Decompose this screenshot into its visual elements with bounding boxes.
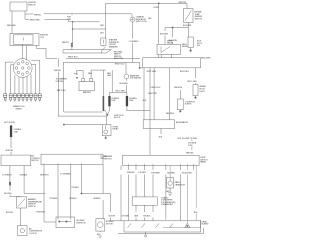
label YEL/T GRN right	[187, 81, 197, 83]
label RED/GRN	[36, 212, 45, 214]
wire box2 drop 2	[57, 165, 59, 220]
label BLK/GRN	[160, 33, 169, 35]
wire charge indicator down	[132, 22, 134, 62]
label BLK left edge	[148, 18, 152, 20]
wire box2 drop 4	[81, 165, 83, 194]
label ambient 4 lines	[28, 198, 42, 208]
battery pos stub dot	[76, 77, 78, 79]
svg-text:ORG/Y BLU: ORG/Y BLU	[150, 87, 160, 89]
alternator box	[143, 120, 174, 129]
svg-text:SOL: SOL	[197, 45, 202, 47]
label NEG	[88, 73, 93, 75]
motor ground	[99, 230, 101, 233]
battery terminal left	[82, 78, 85, 81]
svg-text:RELAY: RELAY	[167, 42, 174, 45]
label RED/T BLU on line	[115, 64, 125, 66]
label spark plugs	[13, 105, 25, 110]
label BLK small	[143, 100, 147, 102]
svg-text:LT GRN/RD: LT GRN/RD	[129, 41, 139, 43]
label ammeter	[130, 74, 141, 79]
wire box3 drop b2	[135, 165, 137, 197]
light switch box3	[123, 155, 200, 165]
label fusible link 2	[129, 98, 137, 102]
label BLK/YEL	[6, 212, 14, 214]
plug wire 1 elbow left	[5, 62, 13, 94]
svg-text:LINK: LINK	[67, 19, 72, 21]
wire y116.1 line	[58, 115, 107, 117]
label clutch 3 lines	[29, 227, 43, 235]
label LPS/BLU	[72, 187, 80, 189]
svg-text:WHT/BLK: WHT/BLK	[166, 113, 175, 115]
wire box1 drop right	[24, 166, 45, 194]
wire reg drop 2	[153, 68, 155, 120]
label YEL/T GRN	[115, 90, 125, 92]
regulator box	[143, 58, 201, 68]
svg-text:LIGHT: LIGHT	[199, 91, 205, 93]
svg-text:YEL/T GRN: YEL/T GRN	[187, 81, 197, 83]
label lighter 2 lines	[175, 181, 186, 186]
svg-text:BLU/GRN: BLU/GRN	[183, 25, 192, 27]
wire x110.5 down	[110, 194, 112, 221]
blower motor M1	[96, 219, 105, 231]
wire coil tach branch	[36, 46, 46, 59]
svg-text:RED/TEL: RED/TEL	[186, 153, 195, 155]
wire reg drop 1	[143, 68, 145, 120]
svg-text:YEL/T GRN: YEL/T GRN	[115, 90, 125, 92]
label WHT/BL vertical	[54, 70, 62, 72]
label ORN/YEL	[5, 150, 14, 152]
label box3 right 3 lines	[200, 157, 208, 164]
svg-text:RED: RED	[100, 158, 105, 160]
wire coil HV to distributor	[21, 44, 23, 58]
wire reg drop 3	[169, 68, 171, 120]
svg-text:SWITCH: SWITCH	[28, 5, 36, 7]
svg-text:(INST CLUS): (INST CLUS)	[136, 21, 147, 23]
label BRN/TOR	[40, 174, 49, 176]
wire to underhood light	[195, 68, 197, 85]
wire drop x139.6	[139, 62, 141, 68]
svg-text:PPL/BLU: PPL/BLU	[72, 187, 80, 189]
wire WHT/BL feed	[25, 14, 132, 17]
svg-text:GRN/BLI: GRN/BLI	[93, 198, 101, 200]
wire temp switch down	[187, 22, 189, 27]
svg-text:PPL/RED: PPL/RED	[50, 198, 58, 200]
wire box3 drop a	[120, 165, 122, 221]
label ground 2 lines	[201, 221, 208, 225]
svg-text:BLK/RED: BLK/RED	[167, 173, 175, 175]
plug wire 8 elbow	[32, 64, 36, 94]
wire RED/T BRN drop at x72.6	[72, 22, 74, 43]
svg-text:BATTERY: BATTERY	[83, 91, 92, 94]
wire WHT/BL long vertical	[57, 58, 59, 116]
label HORN	[154, 7, 160, 9]
wire lighter drop	[169, 165, 171, 177]
svg-text:YEL/BLK: YEL/BLK	[143, 216, 151, 218]
wire tach line y58.3	[46, 57, 140, 59]
lamp box A	[193, 85, 198, 96]
svg-text:OR GRN: OR GRN	[122, 216, 130, 218]
label BLK/GRN below ammeter	[120, 83, 129, 85]
label RED/T BLU small	[68, 57, 78, 59]
blower resistor block	[56, 217, 75, 228]
label box2 right 2 lines	[104, 156, 113, 160]
label BLK right	[194, 212, 198, 214]
label box B 2 lines	[185, 101, 196, 105]
ignition switch SW1	[10, 2, 27, 11]
rail switch diagonal	[106, 50, 111, 53]
plug wire 9 elbow	[31, 60, 40, 94]
starter interrupt connector box	[101, 38, 106, 45]
label relay 3 lines	[113, 126, 120, 130]
svg-text:BLK: BLK	[100, 32, 104, 34]
wire coil second drop	[25, 46, 27, 61]
wire RED/T BRN feed	[25, 19, 100, 22]
wire y27.5 bus	[165, 27, 188, 29]
label RED/TR connector	[62, 42, 69, 44]
switch slashes	[128, 223, 174, 227]
wire top seg left	[109, 220, 124, 222]
label box1 3 lines	[31, 155, 41, 163]
label ignition coil	[40, 35, 49, 40]
wire ammeter up	[125, 62, 127, 74]
wire horn feed line y3.4	[106, 2, 187, 4]
svg-text:BLK/T BLU: BLK/T BLU	[180, 71, 190, 73]
label GRN/YEL	[127, 172, 136, 174]
svg-text:LT GRN/RED: LT GRN/RED	[60, 173, 71, 175]
label LT GRN/RED	[129, 41, 139, 43]
label RED/T BRN	[30, 20, 40, 22]
label DK GRN	[139, 172, 147, 174]
horn relay lower box	[102, 125, 111, 136]
svg-text:BLU/YEL: BLU/YEL	[4, 193, 12, 195]
label ORN/BLK	[19, 175, 28, 177]
wire y67.9 stub	[140, 67, 143, 69]
label solenoid 3 lines	[197, 41, 203, 48]
fuse label 2 lines	[188, 142, 197, 147]
plug wire 5	[22, 77, 24, 93]
wire ambient down	[20, 208, 22, 226]
wire fuse drop	[191, 140, 193, 156]
svg-text:LINK: LINK	[14, 131, 19, 133]
temp sender switch S2	[184, 8, 194, 22]
svg-text:LPS/BLS: LPS/BLS	[69, 198, 77, 200]
svg-text:SCREW: SCREW	[201, 224, 208, 226]
wire box3 drop e	[179, 165, 181, 221]
svg-text:SWITCH: SWITCH	[28, 206, 36, 208]
wire box3 drop b	[128, 165, 130, 221]
svg-text:WHT: WHT	[100, 25, 105, 27]
label box A 3 lines	[199, 86, 206, 93]
wire corner to temp switch	[186, 3, 188, 8]
svg-text:COIL: COIL	[40, 37, 45, 39]
fusible link bus	[109, 92, 127, 94]
svg-text:LINK: LINK	[129, 100, 134, 102]
svg-text:BLK: BLK	[143, 100, 147, 102]
wire box2 drop 3	[70, 165, 72, 220]
svg-text:(OR GAUGE): (OR GAUGE)	[130, 77, 141, 80]
horn relay K1	[157, 44, 180, 54]
legend text 4 lines	[161, 196, 176, 206]
link stubs	[109, 93, 127, 97]
svg-text:NEG: NEG	[88, 73, 93, 75]
label BLK/T BLU	[180, 71, 190, 73]
label GRN/BLI	[93, 198, 101, 200]
svg-text:BRN/TOR: BRN/TOR	[40, 174, 49, 176]
label fusible link 1	[112, 98, 120, 102]
wire ign switch left drop to coil	[11, 11, 13, 34]
svg-text:4 TEL: 4 TEL	[188, 145, 194, 147]
inner bus line	[163, 227, 201, 229]
label HOT IN LIGHT OR RUN	[178, 138, 198, 140]
label WHT/BLK	[174, 87, 183, 89]
wire ign switch right drop	[24, 11, 26, 19]
fan switch bottom box	[124, 221, 201, 232]
wire box2 drop 1	[43, 165, 45, 209]
svg-text:GRN/YEL: GRN/YEL	[127, 172, 136, 174]
wire to box B	[179, 90, 181, 99]
wire link1 down to V	[107, 106, 109, 114]
capacitor component	[167, 178, 174, 189]
label connector 5 lines	[109, 39, 120, 49]
label DK BL/GRN	[182, 173, 192, 175]
svg-text:HOT IN RUN: HOT IN RUN	[4, 122, 15, 124]
box3 terminal ticks	[129, 164, 194, 166]
svg-text:ORN/YEL: ORN/YEL	[5, 150, 14, 152]
wire box3 drop d	[165, 165, 167, 219]
wire ammeter down	[125, 79, 127, 93]
svg-text:POS: POS	[74, 73, 79, 75]
V point dot	[107, 114, 109, 116]
wire x103.3 battery down	[102, 70, 104, 96]
label horn relay	[167, 40, 174, 44]
svg-text:SPL/T GRN: SPL/T GRN	[147, 71, 157, 73]
label BATT BLK	[57, 89, 67, 92]
label charge indicator	[136, 16, 147, 24]
label right of relay	[182, 44, 189, 48]
svg-text:BLK: BLK	[166, 191, 170, 193]
wire connector to rail	[71, 47, 73, 50]
ignition coil C1 outer	[10, 34, 39, 46]
wire y62.3 line	[63, 61, 139, 63]
wire cable to V	[103, 111, 107, 115]
wire x112.2 drop to link bus	[111, 70, 113, 92]
heater box upper	[132, 197, 157, 205]
label BLU/GRN	[183, 25, 192, 27]
label BLK/RED	[167, 173, 175, 175]
label ORG/Y BLU	[150, 87, 160, 89]
starter interrupt rail top	[63, 49, 111, 51]
wire box1 drop left	[9, 166, 11, 182]
wire drop x63.3	[62, 62, 64, 112]
labels under heater box	[109, 216, 151, 218]
svg-text:BLK: BLK	[194, 212, 198, 214]
label RED LBN	[7, 25, 16, 27]
junction dot horn line	[158, 3, 159, 4]
wire battery neg	[91, 70, 106, 78]
svg-text:BLK: BLK	[97, 234, 101, 236]
bottom bus line	[118, 220, 204, 233]
wire box3 drop b3	[144, 165, 146, 197]
svg-text:4 HEATER A/C: 4 HEATER A/C	[161, 203, 174, 206]
wire link3 down	[10, 138, 12, 156]
wire box2 right edge drop	[102, 165, 104, 219]
ammeter gauge	[124, 74, 129, 79]
wire x172.6 down	[172, 28, 174, 45]
label LT GRN/TR	[2, 175, 12, 177]
svg-text:WHT/BLK: WHT/BLK	[174, 87, 183, 89]
svg-text:SWITCH: SWITCH	[31, 160, 39, 162]
label POS	[74, 73, 79, 75]
svg-text:BLK/TR: BLK/TR	[109, 216, 116, 218]
label WHT end	[100, 25, 105, 27]
label neutral safety 4 lines	[114, 50, 123, 60]
label TO STARTER SYSTEM	[56, 77, 68, 82]
junction dot	[139, 67, 140, 68]
relay bottom dot	[105, 136, 107, 138]
svg-text:ELECTRIC: ELECTRIC	[148, 93, 158, 95]
svg-text:LINK: LINK	[112, 100, 117, 102]
svg-text:GRN: GRN	[107, 75, 112, 77]
A/C clutch box	[18, 226, 27, 236]
wire x105.7 battery to horn line	[105, 3, 107, 38]
A/C control box1	[1, 155, 31, 166]
label ignition switch	[28, 2, 37, 7]
svg-text:B FD/RED: B FD/RED	[151, 173, 160, 175]
wire jog right	[82, 193, 111, 195]
label fusible link tick	[71, 14, 73, 15]
wire box3 drop to ground triangle	[186, 165, 188, 223]
svg-text:PANEL: PANEL	[200, 161, 207, 164]
plug wire 3	[14, 75, 16, 94]
svg-text:BATT/ BLK: BATT/ BLK	[57, 89, 67, 92]
wire relay drops	[159, 55, 172, 58]
ground triangle	[185, 223, 190, 227]
svg-text:BLK/YEL: BLK/YEL	[6, 212, 14, 214]
wire lower feed line	[64, 124, 102, 126]
box2 blower switch	[41, 154, 103, 165]
svg-text:RED/TR: RED/TR	[62, 42, 69, 44]
ignition coil inner	[13, 35, 33, 45]
svg-text:WHT/BL: WHT/BL	[54, 70, 62, 72]
wire battery pos	[77, 70, 83, 78]
svg-text:RED/TRL: RED/TRL	[179, 2, 188, 4]
label motor 2 lines	[106, 221, 115, 225]
svg-text:LT GRN/TR: LT GRN/TR	[2, 175, 12, 177]
svg-text:CLUTCH: CLUTCH	[29, 233, 37, 235]
svg-text:RELAY: RELAY	[182, 45, 189, 48]
svg-text:DK BL/GRN: DK BL/GRN	[182, 173, 192, 175]
label ALTERNATOR	[176, 121, 189, 124]
wire heater drops	[135, 205, 137, 221]
wire V to relay	[106, 115, 108, 125]
lamp box B	[178, 99, 184, 110]
label TO BLOWER	[60, 173, 71, 175]
box2 terminal ticks	[44, 163, 82, 165]
connector in-line	[71, 43, 73, 45]
solenoid ground dot	[190, 48, 192, 50]
svg-text:LIGHTS: LIGHTS	[185, 104, 192, 106]
label ELECTRIC	[148, 93, 158, 95]
plug wire 4	[18, 77, 20, 94]
label RED/TEL	[186, 153, 195, 155]
wire link2 down and right	[127, 106, 150, 110]
fusible link L4	[9, 182, 11, 186]
interrupt switch diagonal	[101, 45, 105, 53]
ambient switch S3	[17, 197, 27, 208]
svg-text:MOTOR: MOTOR	[106, 223, 113, 225]
svg-text:WIRES: WIRES	[16, 109, 23, 111]
spark plugs row	[3, 94, 42, 102]
svg-text:SYSTEM: SYSTEM	[56, 81, 64, 83]
svg-text:RED/T BRN: RED/T BRN	[30, 20, 40, 22]
svg-text:BREAKER: BREAKER	[109, 45, 118, 48]
distributor center	[22, 67, 24, 69]
svg-text:BLK: BLK	[159, 136, 163, 138]
svg-text:RED/T BLU: RED/T BLU	[115, 64, 125, 66]
label HOT IN RUN	[4, 122, 15, 124]
label BLU/YEL	[4, 193, 12, 195]
label box3 left 2 lines	[100, 156, 107, 160]
wire x158.5 drop to horn relay	[158, 3, 160, 44]
svg-text:SWITCH: SWITCH	[195, 18, 203, 20]
distributor cap	[13, 59, 32, 78]
plug wire 2	[11, 65, 14, 94]
svg-text:REGULATOR: REGULATOR	[201, 57, 211, 60]
svg-text:BLK: BLK	[148, 18, 152, 20]
coil primary tick	[22, 38, 24, 41]
label temp sender 4 lines	[195, 12, 203, 21]
svg-text:GRN: GRN	[134, 216, 139, 218]
wire link4 down	[10, 185, 21, 196]
svg-text:BLOCK: BLOCK	[114, 117, 121, 119]
svg-text:RED/ LBN: RED/ LBN	[7, 25, 16, 27]
label RED/TRL	[179, 2, 188, 4]
fusible link L1	[108, 96, 110, 106]
svg-text:(AUTO TR): (AUTO TR)	[114, 57, 123, 60]
label WHT/BLK 2	[166, 113, 175, 115]
starter interrupt rail bottom	[63, 52, 106, 54]
distributor towers	[21, 61, 24, 64]
label BLU/GRN 2	[169, 40, 178, 42]
rail left edge	[62, 50, 64, 53]
fan switch ground	[145, 232, 147, 235]
svg-text:SWITCH: SWITCH	[104, 159, 112, 161]
wire drop1 to blower box	[44, 209, 56, 222]
interrupt box inner tick	[102, 40, 104, 44]
wire box3 drop b4	[152, 165, 154, 197]
alternator ground	[160, 129, 162, 135]
battery terminal right	[90, 78, 93, 81]
plug wire 7	[29, 74, 32, 94]
wire x188.3 to solenoid	[187, 28, 189, 38]
anti-diesel solenoid	[188, 37, 193, 48]
capacitor ground	[169, 188, 171, 193]
svg-text:RED/T BLU: RED/T BLU	[68, 57, 78, 59]
svg-text:ALTERNATOR: ALTERNATOR	[176, 121, 189, 124]
svg-text:DK GRN: DK GRN	[139, 172, 147, 174]
svg-text:ORN/BLK: ORN/BLK	[19, 175, 28, 177]
svg-text:HOT IN LIGHT OR RUN: HOT IN LIGHT OR RUN	[178, 138, 198, 140]
svg-text:RESISTOR: RESISTOR	[76, 223, 86, 225]
fusible link L3	[10, 125, 12, 137]
label junction block 2 lines	[114, 115, 124, 119]
label REGULATOR	[201, 57, 213, 60]
label RED GRN stacked	[107, 73, 112, 77]
heavy cable bar	[103, 96, 105, 111]
label SPL/T GRN	[147, 71, 157, 73]
svg-text:BLK/GRN: BLK/GRN	[160, 33, 169, 35]
label WHT/BL	[34, 14, 42, 16]
